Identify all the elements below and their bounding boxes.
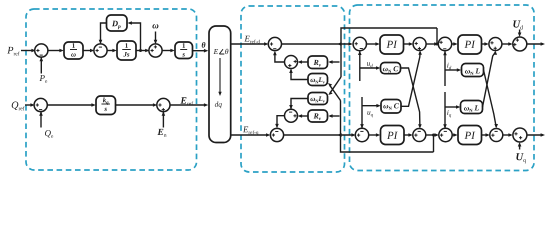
wire idref feedback line V1 <box>341 28 437 77</box>
wire wNC2 crossing up to C1 <box>401 50 422 106</box>
block kq over s <box>96 96 116 115</box>
wire iq to wNL lower <box>445 105 460 117</box>
wire idref tap corner <box>436 28 438 44</box>
wire omega tap to Dp block <box>128 21 141 50</box>
summing junction S5 En add <box>157 98 170 111</box>
summing junction S3 omega add <box>149 44 162 57</box>
node Qe input <box>39 111 53 137</box>
wire C2 to I2 with iqref tap <box>426 133 439 137</box>
wire ud to wNC upper <box>360 62 381 70</box>
wire V1 diagonal into wNLv lower <box>328 77 341 95</box>
wire PI to C2 <box>404 133 413 137</box>
dashed box: VSG power control section <box>26 9 197 170</box>
wire id to wNL upper <box>445 63 461 72</box>
node uq feedback stub <box>360 97 364 129</box>
arrowhead on Erefd wire at feedback crossing <box>337 42 341 46</box>
block 1 over omega <box>64 42 83 59</box>
wire q-axis modulation output <box>527 133 545 137</box>
node Ud feedforward input <box>513 21 523 37</box>
wire iqref feedback line V2 <box>341 101 434 153</box>
wire S1 to 1/w block <box>47 49 63 53</box>
summing junction M4 Rv plus wLv q-axis <box>285 109 298 122</box>
block Rv d-axis virtual resistance <box>308 56 328 69</box>
node Uq feedforward input <box>516 142 526 163</box>
dashed box: virtual impedance section <box>241 6 345 172</box>
node omega reference input <box>152 24 158 44</box>
node theta label <box>202 42 206 48</box>
wire PI to C3 <box>482 42 489 46</box>
wire iqref into Rv2 <box>328 114 339 118</box>
wire Rv2 output to M4 <box>298 114 308 118</box>
wire C3 to F1 <box>502 42 513 46</box>
node Qref label <box>12 102 25 111</box>
wire PI to C1 <box>404 42 414 46</box>
node Pe input <box>39 57 47 83</box>
wire Dp to S2 <box>99 23 107 44</box>
summing junction M2 Rv plus wLv <box>285 56 298 69</box>
block PI current regulator d-axis <box>458 35 482 54</box>
wire iqref tap corner <box>433 135 435 152</box>
wire kq/s to S5 <box>116 103 158 107</box>
block wNC upper capacitor decoupling <box>381 63 401 74</box>
block wNL lower inductor decoupling <box>461 101 483 114</box>
wire Erefq from dq block to M3 <box>231 133 271 137</box>
wire M4 to M3 <box>275 116 285 129</box>
node Erefq label <box>243 127 258 136</box>
node Erefd label <box>244 36 260 44</box>
junction dot on omega wire <box>139 49 142 52</box>
wire V2 diagonal into wNLv upper <box>328 83 341 101</box>
block wNC lower capacitor decoupling <box>381 100 401 114</box>
dashed box: voltage and current dual loop section <box>350 5 535 171</box>
block Rv q-axis virtual resistance <box>308 110 328 122</box>
arrowhead on Erefq wire at feedback crossing <box>337 133 341 137</box>
block wNL upper inductor decoupling <box>462 64 484 77</box>
wire theta to E-angle-theta block <box>193 49 209 53</box>
summing junction V1 Erefd minus ud <box>353 37 366 50</box>
summing junction M1 Erefd minus drop <box>268 37 281 50</box>
wire idref into Rv1 <box>328 60 339 64</box>
block PI voltage regulator q-axis <box>381 126 405 145</box>
block E-angle-theta to dq transform <box>209 26 231 143</box>
summing junction C3 add wL decoupling <box>489 38 502 51</box>
wire uq to wNC lower <box>362 104 381 117</box>
summing junction C2 subtract wC decoupling <box>413 129 426 142</box>
wire S2 to 1/Js block <box>107 49 117 53</box>
wire C4 to F2 <box>503 133 513 137</box>
wire wNC1 crossing down to C2 <box>401 68 422 129</box>
wire Erefd from dq block to M1 <box>231 42 269 46</box>
block wNLv lower virtual inductance <box>308 93 328 105</box>
summing junction C4 subtract wL decoupling <box>490 129 503 142</box>
block Dp damping coefficient <box>107 15 128 31</box>
wire 1/w to S2 <box>83 49 94 53</box>
wire S3 to integrator 1/s <box>162 49 175 53</box>
wire M2 to M1 <box>273 51 285 62</box>
summing junction I1 idref minus id <box>438 37 451 50</box>
wire V1 to PI voltage d <box>366 42 380 46</box>
wire Pref to sum S1 <box>21 49 36 53</box>
wire d-axis modulation output <box>527 42 545 46</box>
block PI voltage regulator d-axis <box>380 35 404 54</box>
summing junction S2 droop feedback <box>94 44 107 57</box>
wire I2 to PI current q <box>452 133 458 137</box>
node Pref label <box>7 47 19 56</box>
wire V2 to PI voltage q <box>368 133 380 137</box>
summing junction S4 Qref minus Qe <box>34 98 47 111</box>
wire Qref to S4 <box>25 103 35 107</box>
summing junction S1 Pref minus Pe <box>35 44 48 57</box>
node iq feedback stub <box>443 92 447 129</box>
wire wNL2 crossing up to C3 <box>483 50 498 107</box>
wire wNLv1 output to M2 <box>289 69 308 80</box>
node ud feedback stub <box>358 51 362 81</box>
block wNLv upper virtual inductance <box>308 74 328 86</box>
node id feedback stub <box>443 51 447 86</box>
summing junction C1 add wC decoupling <box>413 38 426 51</box>
wire M1 to sum V1 <box>281 42 353 46</box>
summing junction F1 add Ud feedforward <box>513 37 527 51</box>
summing junction F2 add Uq feedforward <box>513 128 527 142</box>
summing junction M3 Erefq minus drop <box>270 128 283 141</box>
wire PI to C4 <box>482 133 490 137</box>
node En nominal voltage input <box>157 111 166 136</box>
block 1 over s integrator <box>175 42 193 59</box>
wire S4 to kq/s block <box>47 103 96 107</box>
block 1 over Js <box>117 41 136 60</box>
wire wNLv2 output to M4 <box>289 99 308 110</box>
block PI current regulator q-axis <box>458 126 482 145</box>
wire M3 to sum V2 <box>283 133 355 137</box>
summing junction V2 Erefq minus uq <box>355 128 368 141</box>
node Eref label <box>180 97 193 105</box>
wire C1 to I1 with idref tap <box>426 42 439 46</box>
wire Rv1 output to M2 <box>298 60 308 64</box>
wire wNL1 crossing down to C4 <box>484 70 499 128</box>
wire I1 to PI current d <box>451 42 457 46</box>
wire 1/Js to S3 <box>136 49 150 53</box>
summing junction I2 iqref minus iq <box>439 128 452 141</box>
wire Eref to E-angle-theta block <box>170 103 209 107</box>
